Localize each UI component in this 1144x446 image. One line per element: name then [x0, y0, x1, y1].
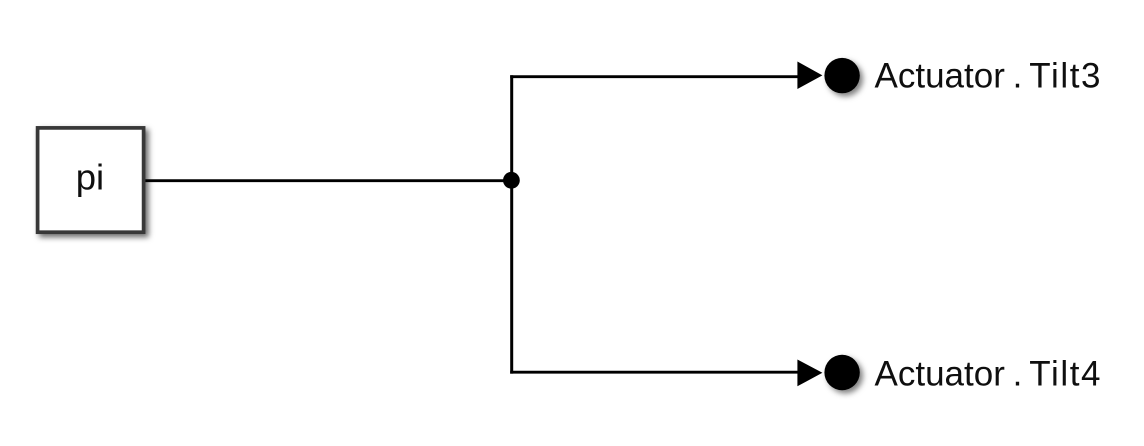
- svg-text:Actuator: Actuator: [875, 354, 1006, 393]
- node: branch junction dot: [503, 172, 520, 189]
- wire: vertical branch segment: [510, 75, 513, 373]
- svg-text:.: .: [1013, 354, 1023, 393]
- svg-text:Tilt4: Tilt4: [1029, 354, 1102, 393]
- arrowhead into Actuator.Tilt4 port: [797, 360, 822, 387]
- svg-text:Tilt3: Tilt3: [1029, 57, 1102, 96]
- block: Constant "pi": [38, 128, 144, 232]
- wire: branch to Actuator.Tilt4: [510, 371, 799, 374]
- wire: pi block output to branch junction: [145, 179, 513, 182]
- svg-text:pi: pi: [76, 157, 104, 198]
- port circle: Actuator.Tilt4: [824, 355, 859, 390]
- wire: branch to Actuator.Tilt3: [510, 75, 799, 78]
- port circle: Actuator.Tilt3: [824, 58, 859, 93]
- svg-text:.: .: [1013, 57, 1023, 96]
- svg-text:Actuator: Actuator: [875, 57, 1006, 96]
- arrowhead into Actuator.Tilt3 port: [797, 62, 822, 90]
